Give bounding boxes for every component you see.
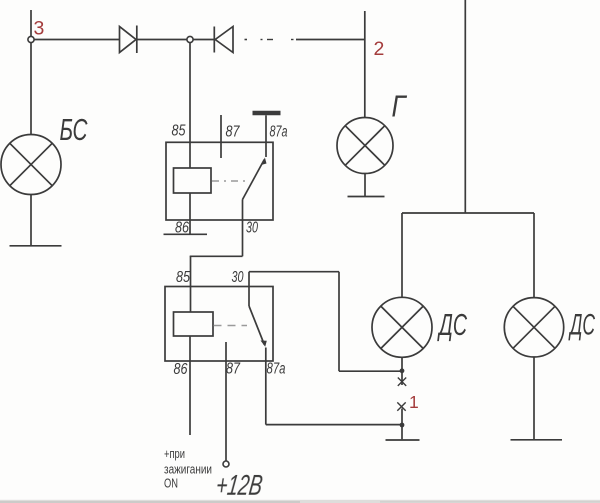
- svg-text:87: 87: [226, 361, 241, 378]
- svg-text:+12В: +12В: [214, 470, 264, 501]
- svg-text:зажигании: зажигании: [164, 462, 212, 477]
- svg-text:87: 87: [226, 124, 241, 141]
- svg-text:86: 86: [175, 220, 189, 237]
- svg-text:87a: 87a: [267, 361, 286, 378]
- svg-text:30: 30: [246, 220, 258, 237]
- svg-text:ДС: ДС: [568, 309, 595, 342]
- svg-text:85: 85: [176, 269, 190, 286]
- svg-text:1: 1: [409, 392, 419, 412]
- svg-text:ДС: ДС: [437, 307, 467, 342]
- svg-text:+при: +при: [164, 446, 185, 461]
- svg-text:Г: Г: [392, 89, 408, 124]
- svg-text:30: 30: [232, 269, 244, 286]
- svg-text:87a: 87a: [270, 124, 288, 141]
- svg-text:86: 86: [174, 361, 188, 378]
- svg-text:2: 2: [374, 38, 385, 60]
- svg-text:ON: ON: [164, 476, 178, 491]
- svg-text:3: 3: [34, 18, 45, 40]
- svg-text:БС: БС: [60, 112, 88, 147]
- svg-text:85: 85: [172, 123, 186, 140]
